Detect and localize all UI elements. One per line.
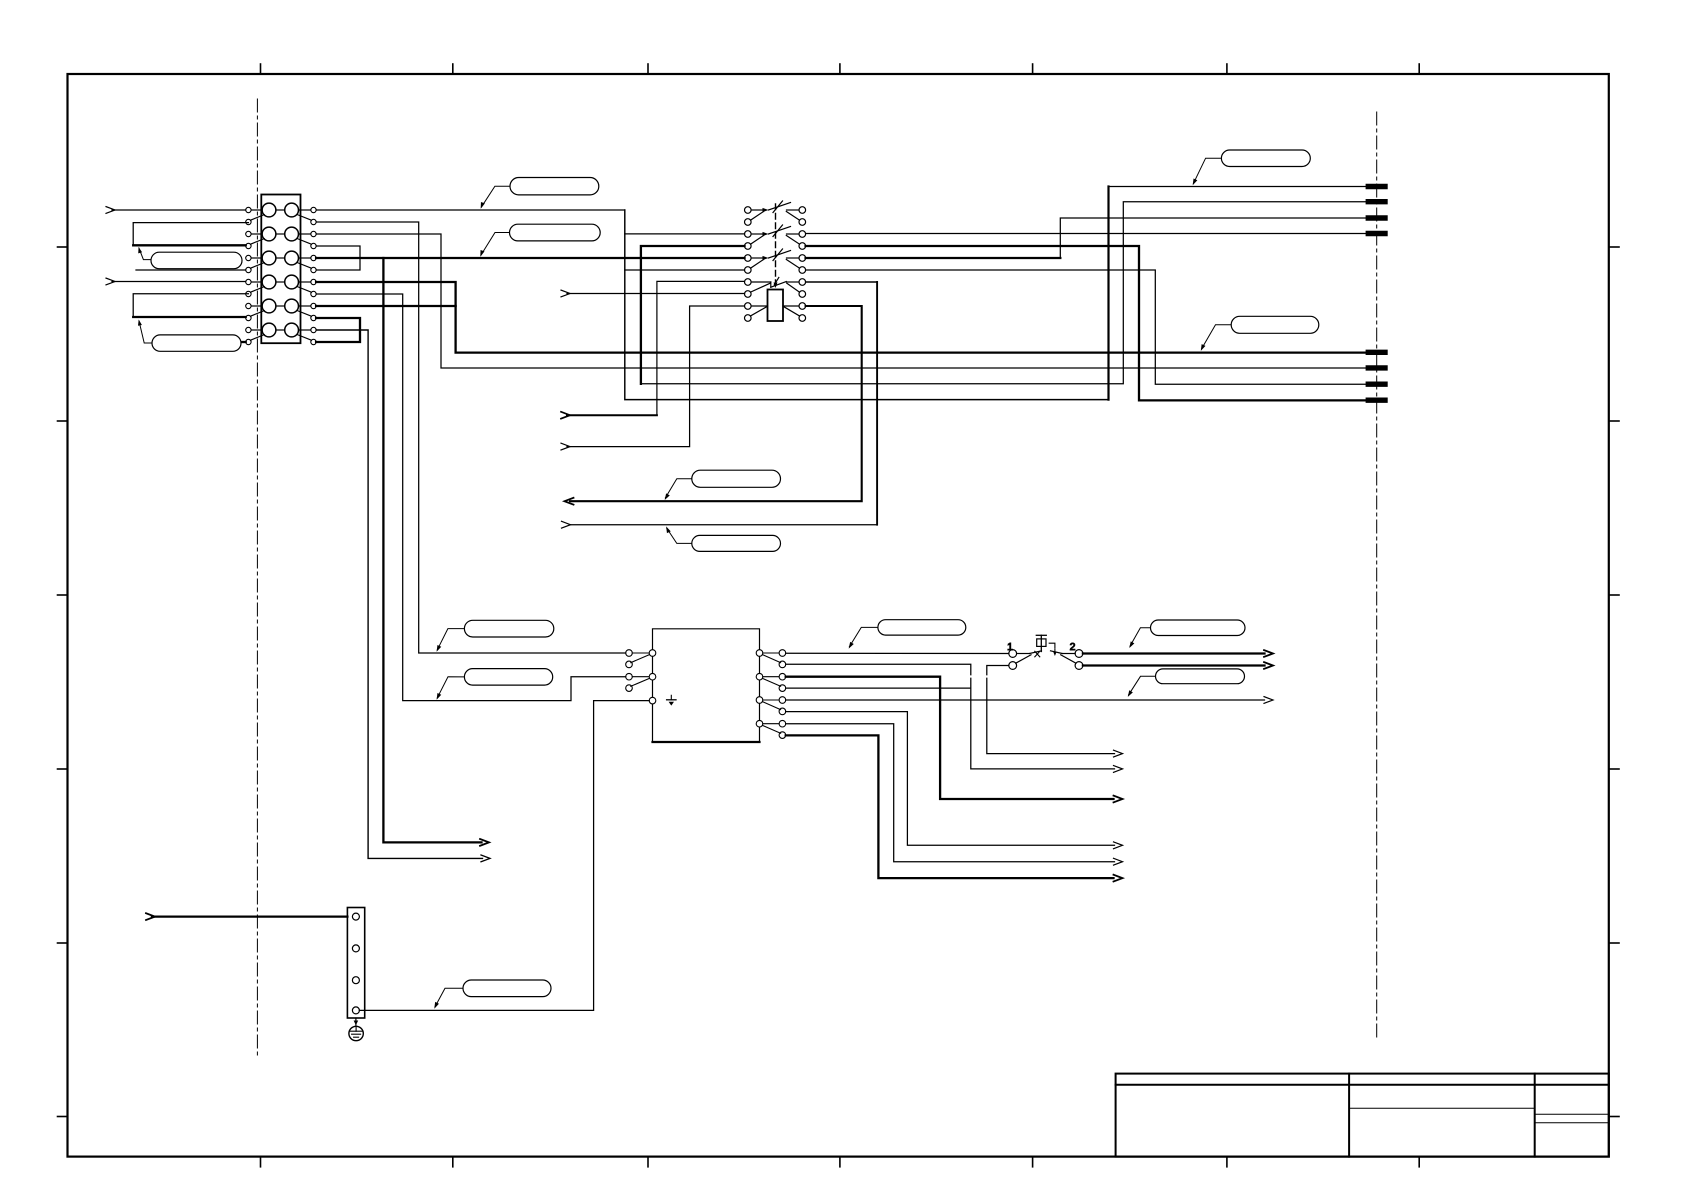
svg-text:1: 1 [1007, 641, 1013, 653]
svg-text:2: 2 [1070, 641, 1076, 653]
